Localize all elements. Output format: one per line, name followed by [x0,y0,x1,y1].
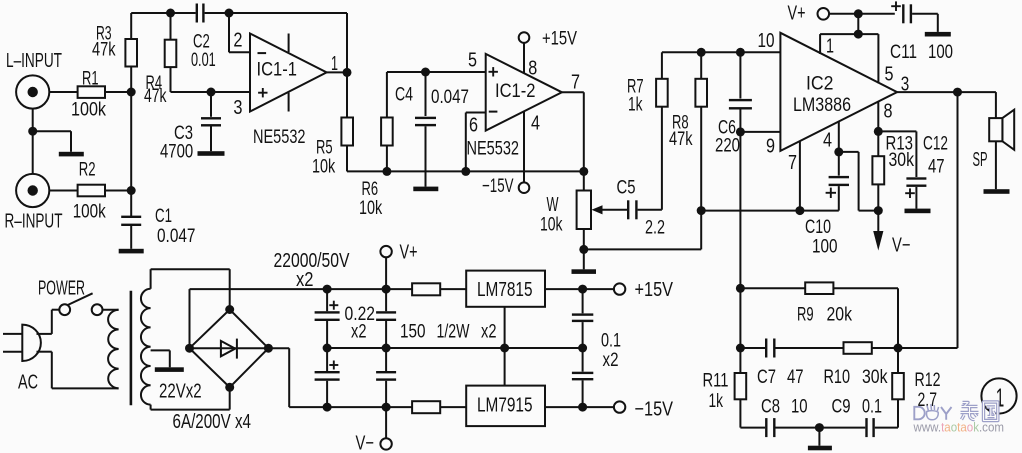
svg-text:10k: 10k [540,214,563,236]
svg-text:100k: 100k [73,201,106,223]
svg-text:100: 100 [928,41,953,63]
svg-text:+15V: +15V [635,279,674,301]
svg-text:7: 7 [571,71,580,93]
svg-text:C9: C9 [832,396,851,418]
svg-text:R2: R2 [79,159,96,181]
svg-text:47k: 47k [669,128,693,150]
svg-text:1/2W: 1/2W [437,321,470,343]
svg-text:x2: x2 [481,321,497,343]
svg-text:V+: V+ [400,241,418,263]
svg-text:2.2: 2.2 [645,217,665,239]
svg-text:−15V: −15V [482,175,514,197]
svg-text:SP: SP [973,149,988,171]
svg-text:5: 5 [468,50,477,72]
svg-text:10k: 10k [312,156,335,178]
svg-text:2: 2 [233,29,242,51]
svg-text:C12: C12 [923,132,948,154]
svg-text:V−: V− [356,432,375,453]
svg-text:R12: R12 [915,369,941,391]
svg-text:22Vx2: 22Vx2 [159,380,202,402]
svg-text:47k: 47k [92,39,116,61]
svg-text:0.01: 0.01 [191,49,216,71]
svg-text:10k: 10k [359,197,382,219]
svg-text:x2: x2 [296,269,314,291]
svg-text:LM7815: LM7815 [477,279,533,301]
svg-text:C4: C4 [395,84,413,106]
svg-text:V+: V+ [788,3,806,25]
svg-text:x2: x2 [603,349,619,371]
svg-text:5: 5 [885,63,894,85]
svg-text:1: 1 [331,53,338,75]
svg-text:NE5532: NE5532 [253,126,306,148]
svg-text:10: 10 [791,396,808,418]
svg-text:L–INPUT: L–INPUT [6,50,62,72]
svg-text:100: 100 [812,236,838,258]
svg-text:20k: 20k [827,303,853,325]
svg-text:C1: C1 [155,205,172,227]
svg-text:0.047: 0.047 [157,225,196,247]
svg-text:IC1-1: IC1-1 [257,58,298,80]
svg-text:0.047: 0.047 [431,86,469,108]
svg-text:3: 3 [901,73,910,95]
svg-text:1k: 1k [709,390,724,412]
svg-text:www.taotaok.com: www.taotaok.com [913,420,1004,434]
svg-text:POWER: POWER [38,277,85,299]
svg-text:−15V: −15V [635,398,674,420]
svg-text:4: 4 [823,129,832,151]
svg-text:9: 9 [766,135,775,157]
svg-text:7: 7 [788,152,797,174]
svg-text:10: 10 [758,30,775,52]
svg-text:LM3886: LM3886 [793,94,851,116]
svg-text:6A/200V x4: 6A/200V x4 [173,411,252,433]
svg-text:150: 150 [400,321,426,343]
svg-text:C5: C5 [617,177,636,199]
svg-text:47: 47 [787,366,804,388]
svg-text:R1: R1 [82,68,99,90]
svg-text:IC2: IC2 [806,73,834,95]
svg-text:x2: x2 [351,321,367,343]
svg-text:C7: C7 [757,366,776,388]
svg-text:NE5532: NE5532 [467,137,520,159]
svg-text:1k: 1k [628,94,643,116]
svg-text:AC: AC [18,372,38,394]
svg-text:R11: R11 [703,370,729,392]
svg-text:8: 8 [528,58,537,80]
svg-text:V−: V− [892,234,911,256]
svg-text:C11: C11 [890,41,917,63]
svg-text:47: 47 [928,156,945,178]
svg-text:LM7915: LM7915 [477,394,533,416]
svg-text:0.1: 0.1 [862,396,882,418]
svg-text:8: 8 [884,100,893,122]
svg-text:6: 6 [469,114,478,136]
svg-text:IC1-2: IC1-2 [495,80,536,102]
svg-text:220: 220 [715,134,740,156]
svg-text:+15V: +15V [542,27,577,49]
svg-text:1: 1 [826,35,834,57]
svg-text:R–INPUT: R–INPUT [5,211,63,233]
svg-text:C8: C8 [761,396,780,418]
svg-text:4: 4 [531,113,540,135]
svg-text:R9: R9 [797,303,814,325]
svg-text:4700: 4700 [160,141,193,163]
svg-text:100k: 100k [71,99,106,121]
svg-text:47k: 47k [144,85,167,107]
svg-text:30k: 30k [889,149,915,171]
svg-text:30k: 30k [862,366,888,388]
svg-text:3: 3 [233,97,242,119]
svg-text:R10: R10 [824,366,851,388]
